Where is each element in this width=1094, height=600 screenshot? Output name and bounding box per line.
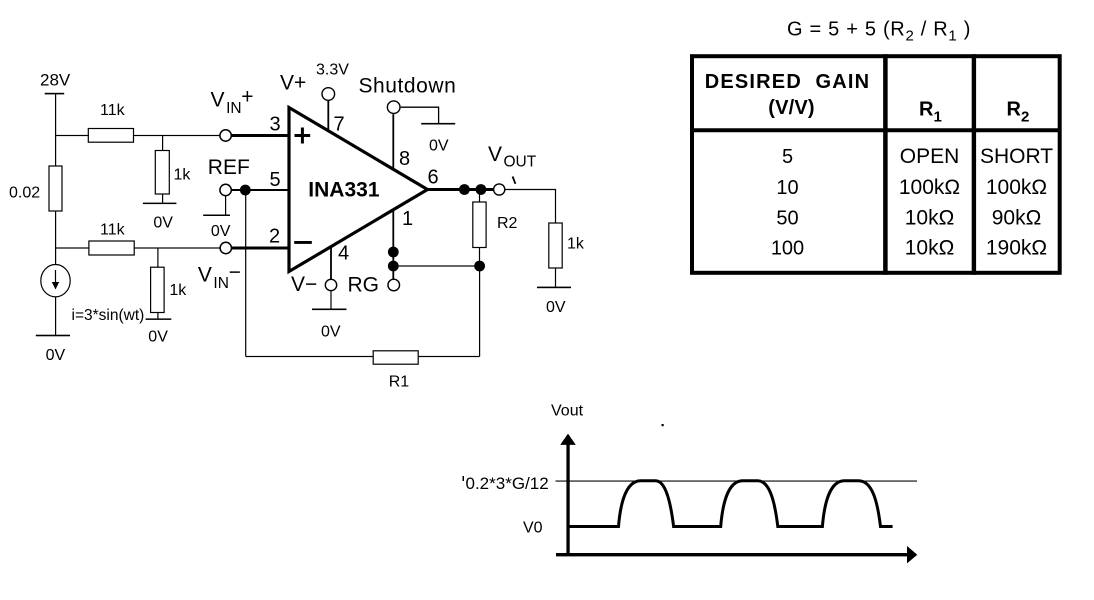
svg-text:1k: 1k bbox=[174, 167, 192, 184]
svg-text:R2: R2 bbox=[497, 215, 518, 232]
terminal V- bbox=[325, 279, 336, 290]
svg-text:0V: 0V bbox=[546, 299, 566, 316]
wire REF terminal to ground bbox=[225, 196, 226, 215]
table column desired gain values bbox=[771, 146, 804, 260]
junction dot pin1 lower bbox=[388, 261, 399, 272]
wire 0.02 to current source bbox=[55, 211, 56, 265]
svg-text:0.02: 0.02 bbox=[9, 185, 40, 202]
svg-text:100kΩ: 100kΩ bbox=[986, 176, 1047, 199]
wire feedback bottom left segment bbox=[246, 356, 374, 357]
svg-text:INA331: INA331 bbox=[308, 179, 380, 202]
table frame bbox=[690, 54, 1062, 275]
table column R1 values bbox=[899, 145, 960, 260]
svg-text:5: 5 bbox=[782, 146, 793, 168]
ground bar load bbox=[537, 287, 571, 289]
svg-text:V: V bbox=[488, 143, 502, 166]
svg-text:(V/V): (V/V) bbox=[768, 97, 815, 119]
wire stub down to lower 1k bbox=[157, 248, 158, 267]
plot x-axis arrowhead bbox=[907, 546, 917, 563]
current source I1 bbox=[41, 265, 70, 297]
svg-text:0V: 0V bbox=[211, 223, 231, 240]
svg-text:10kΩ: 10kΩ bbox=[905, 206, 955, 229]
resistor R2 bbox=[473, 202, 486, 248]
junction dot pin1 upper bbox=[388, 247, 399, 258]
table column R2 values bbox=[980, 145, 1053, 260]
svg-text:0.2*3*G/12: 0.2*3*G/12 bbox=[466, 474, 549, 493]
terminal 3.3V bbox=[322, 88, 335, 101]
svg-text:0V: 0V bbox=[321, 324, 341, 341]
svg-text:1: 1 bbox=[402, 208, 413, 230]
svg-text:3: 3 bbox=[270, 114, 281, 136]
wire VOUT to load corner bbox=[505, 190, 555, 224]
wire REF terminal to pin 5 bbox=[232, 189, 290, 191]
svg-text:DESIRED GAIN: DESIRED GAIN bbox=[705, 71, 871, 93]
waveform trace bbox=[568, 481, 893, 527]
wire 1k load to ground bbox=[555, 268, 556, 287]
svg-text:11k: 11k bbox=[100, 102, 126, 119]
resistor 1k upper divider bbox=[155, 151, 169, 195]
svg-text:i=3*sin(wt): i=3*sin(wt) bbox=[72, 307, 145, 324]
svg-text:Vout: Vout bbox=[551, 403, 584, 420]
resistor 1k lower divider bbox=[151, 267, 165, 312]
svg-text:0V: 0V bbox=[429, 138, 449, 155]
stray dot bbox=[662, 424, 664, 426]
resistor 11k top bbox=[88, 129, 133, 143]
ground bar upper 1k bbox=[143, 203, 177, 205]
resistor 11k bottom bbox=[89, 241, 134, 255]
svg-text:V0: V0 bbox=[523, 520, 543, 537]
terminal VIN- bbox=[220, 242, 231, 253]
wire 1k to ground bbox=[162, 194, 163, 203]
wire 11k to VIN+ terminal bbox=[134, 135, 220, 136]
svg-text:100kΩ: 100kΩ bbox=[899, 176, 960, 199]
plot y-axis arrowhead bbox=[560, 434, 576, 445]
svg-text:8: 8 bbox=[399, 148, 410, 170]
label VOUT bbox=[488, 143, 537, 171]
terminal VOUT bbox=[494, 184, 505, 195]
ground bar shutdown bbox=[421, 123, 455, 125]
terminal VIN+ bbox=[220, 130, 231, 141]
wire 28V rail down to 0.02 resistor bbox=[55, 94, 56, 166]
junction dot feedback right bbox=[474, 261, 485, 272]
wire current source to ground bbox=[55, 297, 56, 335]
wire output pin 6 bbox=[428, 188, 494, 191]
svg-text:10kΩ: 10kΩ bbox=[905, 237, 955, 260]
plot level line bbox=[556, 481, 918, 482]
svg-text:0V: 0V bbox=[46, 347, 66, 364]
ground bar REF bbox=[203, 215, 230, 217]
svg-text:1k: 1k bbox=[169, 282, 187, 299]
svg-text:R2: R2 bbox=[1007, 99, 1030, 126]
svg-text:V+: V+ bbox=[280, 72, 306, 95]
resistor R1 bbox=[373, 351, 418, 364]
svg-text:G = 5 + 5 (R2 / R1 ): G = 5 + 5 (R2 / R1 ) bbox=[787, 19, 971, 45]
28V supply bar bbox=[45, 93, 64, 95]
plot x-axis bbox=[556, 553, 908, 556]
op-amp minus input marker bbox=[294, 241, 312, 244]
svg-text:3.3V: 3.3V bbox=[316, 62, 349, 79]
resistor 1k load bbox=[549, 223, 562, 268]
ground bar V- bbox=[312, 309, 347, 311]
svg-text:−: − bbox=[229, 261, 241, 284]
svg-text:R1: R1 bbox=[389, 374, 410, 391]
svg-text:V−: V− bbox=[291, 273, 317, 296]
svg-text:R1: R1 bbox=[919, 99, 942, 126]
wire RG node to feedback right bbox=[393, 265, 479, 266]
svg-text:OUT: OUT bbox=[504, 153, 537, 170]
label VIN+ bbox=[211, 86, 254, 118]
plot y-axis bbox=[566, 443, 569, 556]
wire feedback bottom right segment bbox=[418, 356, 479, 357]
svg-text:Shutdown: Shutdown bbox=[359, 75, 457, 98]
op-amp U1 INA331 triangle bbox=[289, 108, 428, 272]
plot level tick bbox=[463, 476, 465, 481]
wire row2 rail to 11k bbox=[55, 247, 89, 248]
svg-text:REF: REF bbox=[208, 156, 250, 179]
svg-text:5: 5 bbox=[270, 169, 281, 191]
wire row1 rail to 11k bbox=[55, 135, 89, 136]
svg-text:1k: 1k bbox=[567, 236, 585, 253]
wire feedback left up to REF bbox=[245, 190, 246, 357]
wire pin 4 bbox=[330, 247, 332, 279]
wire pin 1 bbox=[392, 210, 394, 278]
wire pin 7 bbox=[327, 101, 329, 131]
junction dot output b bbox=[476, 184, 487, 195]
svg-text:0V: 0V bbox=[153, 215, 173, 232]
wire R2 to feedback node bbox=[479, 248, 480, 267]
svg-text:IN: IN bbox=[226, 100, 242, 117]
wire VIN+ terminal to pin 3 bbox=[232, 134, 290, 137]
svg-text:V: V bbox=[198, 263, 212, 286]
svg-text:50: 50 bbox=[776, 207, 798, 229]
wire pin 8 bbox=[392, 114, 394, 169]
terminal REF bbox=[220, 184, 231, 195]
junction dot output a bbox=[459, 184, 470, 195]
svg-text:90kΩ: 90kΩ bbox=[992, 206, 1042, 229]
wire V- terminal to ground bbox=[330, 291, 331, 309]
wire shutdown terminal to ground corner bbox=[401, 107, 439, 123]
svg-text:10: 10 bbox=[776, 177, 798, 199]
svg-text:4: 4 bbox=[338, 243, 349, 265]
current source arrowhead bbox=[52, 282, 59, 290]
apostrophe tick at VOUT bbox=[513, 177, 516, 184]
svg-text:2: 2 bbox=[269, 226, 280, 248]
ground bar lower 1k bbox=[146, 318, 172, 320]
table header DESIRED GAIN (V/V) bbox=[705, 71, 871, 119]
svg-text:OPEN: OPEN bbox=[900, 145, 960, 168]
svg-text:100: 100 bbox=[771, 238, 804, 260]
svg-text:28V: 28V bbox=[40, 71, 71, 90]
svg-text:190kΩ: 190kΩ bbox=[986, 237, 1047, 260]
wire lower 1k to ground bbox=[157, 313, 158, 319]
svg-text:0V: 0V bbox=[148, 329, 168, 346]
wire feedback right down bbox=[479, 266, 480, 357]
junction dot REF feedback bbox=[240, 185, 251, 196]
wire 11k to VIN- terminal bbox=[134, 247, 220, 248]
svg-text:V: V bbox=[211, 88, 225, 111]
svg-text:SHORT: SHORT bbox=[980, 145, 1053, 168]
terminal RG bbox=[388, 279, 400, 291]
wire stub output to R2 bbox=[479, 191, 480, 202]
svg-text:+: + bbox=[241, 86, 253, 109]
ground bar source bbox=[36, 335, 70, 337]
svg-text:7: 7 bbox=[334, 114, 345, 136]
svg-text:11k: 11k bbox=[100, 222, 126, 239]
resistor 0.02 bbox=[49, 166, 62, 211]
op-amp plus input marker bbox=[295, 128, 311, 144]
terminal Shutdown bbox=[387, 101, 400, 114]
svg-text:RG: RG bbox=[348, 274, 380, 297]
wire stub down to 1k top bbox=[162, 136, 163, 151]
wire VIN- terminal to pin 2 bbox=[232, 247, 290, 250]
svg-text:IN: IN bbox=[213, 275, 229, 292]
label VIN- bbox=[198, 261, 241, 292]
svg-text:6: 6 bbox=[428, 167, 439, 189]
